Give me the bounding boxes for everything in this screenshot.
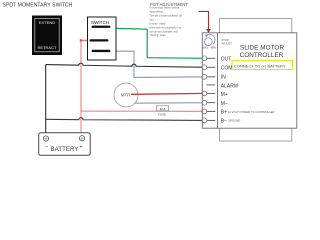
terminal M- — [202, 100, 215, 105]
svg-text:ALARM: ALARM — [221, 83, 238, 89]
svg-text:RETRACT: RETRACT — [38, 45, 57, 50]
svg-text:BATTERY: BATTERY — [51, 146, 79, 153]
terminal B+ — [202, 109, 215, 114]
battery B1 — [39, 133, 90, 156]
yellow note: connect to battery — [232, 61, 293, 70]
svg-text:turn.: turn. — [150, 18, 155, 21]
wire black: battery - to COM (hops over pink and blue) — [46, 63, 206, 67]
svg-text:stop position,: stop position, — [150, 10, 164, 13]
terminal OUT — [202, 56, 215, 61]
wire red: riser to switch middle terminal — [81, 39, 91, 41]
svg-text:ADJUST: ADJUST — [222, 41, 233, 45]
svg-text:CONNECT TO (+) BATTERY: CONNECT TO (+) BATTERY — [234, 63, 286, 68]
svg-text:Turn pot counter clockwise 1/8: Turn pot counter clockwise 1/8 — [150, 14, 183, 17]
svg-text:M+: M+ — [221, 92, 228, 98]
terminal IN — [202, 74, 215, 79]
svg-text:COM: COM — [221, 65, 233, 71]
arrow from note to pot — [199, 11, 211, 33]
svg-text:30 A: 30 A — [159, 107, 165, 111]
fuse F1 — [157, 106, 169, 117]
switch S1 schematic box — [88, 17, 117, 60]
wire pink: B+ feed through fuse — [81, 110, 206, 112]
switch terminal bar middle — [90, 39, 109, 41]
svg-text:SPDT MOMENTARY SWITCH: SPDT MOMENTARY SWITCH — [3, 3, 73, 9]
switch terminal bar top — [92, 26, 111, 28]
svg-text:If motor "clicks": If motor "clicks" — [150, 22, 166, 25]
wire gray: motor to M- — [135, 102, 206, 105]
svg-text:B−: B− — [221, 119, 227, 125]
svg-text:If room stops before desired: If room stops before desired — [150, 6, 180, 9]
svg-text:SLIDE MOTOR: SLIDE MOTOR — [240, 44, 284, 51]
svg-text:MAX: MAX — [202, 46, 208, 50]
svg-text:FUSE: FUSE — [158, 112, 166, 116]
terminal M+ — [202, 91, 215, 96]
svg-text:+: + — [79, 144, 82, 150]
svg-text:GROUND: GROUND — [228, 119, 240, 123]
svg-text:SWITCH: SWITCH — [91, 20, 109, 25]
svg-text:−: − — [45, 145, 48, 151]
pot adjustment note — [150, 2, 189, 37]
svg-text:B+: B+ — [221, 110, 227, 116]
controller outer plate — [220, 19, 292, 142]
terminal ALARM dash — [206, 84, 215, 86]
svg-text:OUT: OUT — [221, 56, 232, 62]
svg-text:IN: IN — [221, 75, 226, 81]
switch terminal bar bottom — [92, 50, 111, 52]
rocker switch panel — [32, 16, 62, 56]
svg-text:MTR: MTR — [121, 93, 131, 98]
svg-text:CONTROLLER: CONTROLLER — [240, 52, 284, 59]
pot stop adjust — [202, 34, 232, 49]
svg-text:12 VOLT POWER TO CONTROLLER: 12 VOLT POWER TO CONTROLLER — [228, 110, 275, 114]
svg-text:out turn pot clockwise until: out turn pot clockwise until — [150, 30, 179, 33]
terminal COM — [202, 65, 215, 70]
terminal B- — [202, 118, 215, 123]
wire blue: switch bottom terminal to IN — [109, 51, 206, 77]
wire black: battery - vertical — [45, 65, 47, 136]
svg-text:MIN: MIN — [211, 46, 216, 50]
wire green: switch top terminal to OUT — [111, 28, 207, 58]
svg-text:EXTEND: EXTEND — [39, 20, 55, 25]
svg-text:when room is completely in or: when room is completely in or — [150, 26, 182, 29]
wire pink: battery + vertical riser — [80, 40, 82, 135]
wire dark gray: battery - to B- (hops over pink) — [46, 118, 206, 121]
controller U1 box — [202, 33, 296, 128]
svg-text:"clicking" stops.: "clicking" stops. — [150, 34, 167, 37]
junction dot at riser corner — [80, 39, 82, 41]
motor MTR — [114, 83, 138, 107]
svg-text:M−: M− — [221, 101, 228, 107]
wire red: motor to M+ — [131, 92, 206, 95]
